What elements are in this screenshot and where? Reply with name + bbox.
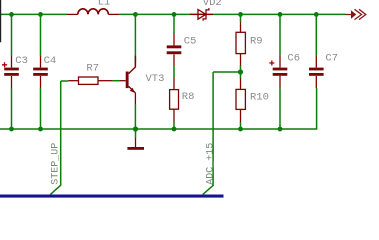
svg-text:ADC_+15: ADC_+15 — [206, 143, 217, 185]
svg-text:C6: C6 — [287, 52, 300, 64]
svg-text:C7: C7 — [325, 52, 338, 64]
svg-text:R8: R8 — [182, 91, 195, 103]
svg-text:R7: R7 — [86, 63, 99, 75]
svg-text:R10: R10 — [250, 92, 269, 104]
svg-text:VD2: VD2 — [203, 0, 222, 9]
svg-text:STEP_UP: STEP_UP — [50, 143, 61, 185]
svg-text:C3: C3 — [15, 55, 28, 67]
svg-text:C5: C5 — [184, 36, 197, 48]
svg-text:VT3: VT3 — [146, 73, 165, 85]
svg-text:L1: L1 — [98, 0, 111, 9]
svg-text:R9: R9 — [250, 35, 263, 47]
svg-text:C4: C4 — [44, 55, 57, 67]
